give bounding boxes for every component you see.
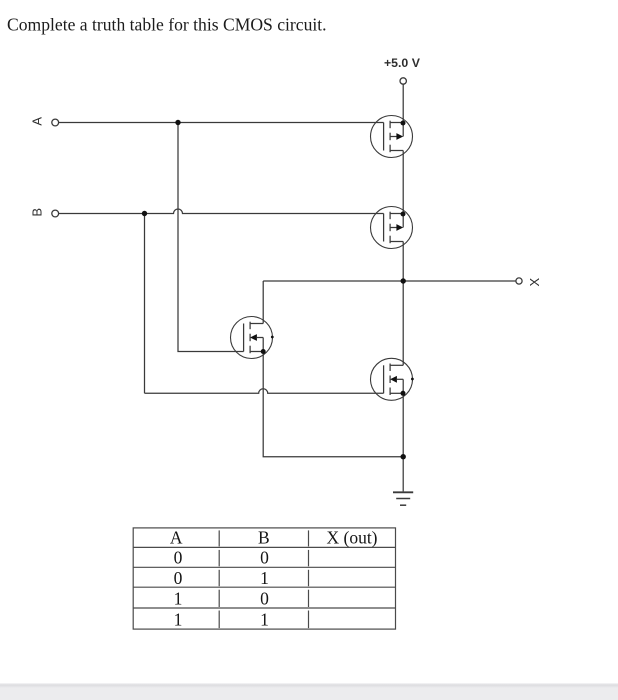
junction output node	[401, 278, 406, 283]
svg-text:1: 1	[174, 610, 183, 630]
svg-text:B: B	[29, 208, 44, 217]
wire M3 drain up to output line	[262, 281, 264, 324]
svg-text:+5.0 V: +5.0 V	[384, 56, 421, 70]
wire M3 source down to ground rail	[263, 352, 403, 457]
junction node B	[142, 211, 147, 216]
node mark M4 circle edge	[411, 378, 414, 381]
+5.0V terminal	[400, 78, 406, 84]
truth table	[133, 528, 395, 629]
junction M4 body-source	[401, 391, 406, 396]
wire VDD to M1 drain rail	[402, 84, 404, 136]
input terminal A	[52, 119, 59, 126]
wire node B vertical	[144, 214, 146, 394]
wire input B to M2 gate (hop over A vertical)	[59, 209, 384, 213]
svg-text:A: A	[170, 528, 183, 548]
wire M2 source to output node and M4 drain	[402, 242, 404, 366]
pmos M2	[371, 207, 413, 249]
svg-text:A: A	[29, 117, 44, 126]
wire M1 source to M2 drain	[402, 151, 404, 228]
svg-text:1: 1	[260, 568, 269, 588]
svg-text:X (out): X (out)	[326, 528, 377, 548]
ground	[393, 492, 413, 505]
svg-text:0: 0	[260, 548, 269, 568]
wire node B to M4 gate (hop over M3 source vertical)	[145, 389, 384, 393]
nmos M4	[371, 358, 413, 400]
junction M3 body-source	[261, 349, 266, 354]
wire M4 source to ground	[402, 393, 404, 491]
wire output node to terminal X	[263, 280, 515, 282]
junction ground rail	[401, 454, 406, 459]
node mark M3 circle edge	[271, 336, 274, 339]
input terminal B	[52, 210, 59, 217]
nmos M3	[231, 317, 273, 359]
junction M1 body-source	[401, 121, 406, 126]
output terminal X	[516, 278, 522, 284]
junction M2 body-source	[401, 212, 406, 217]
svg-text:0: 0	[174, 568, 183, 588]
pmos M1	[371, 116, 413, 158]
svg-text:0: 0	[174, 548, 183, 568]
wire input A to M1 gate	[59, 122, 384, 124]
svg-text:1: 1	[260, 610, 269, 630]
svg-text:0: 0	[260, 589, 269, 609]
bottom scroll strip	[0, 683, 618, 700]
svg-text:1: 1	[174, 589, 183, 609]
svg-text:X: X	[527, 278, 542, 287]
junction node A	[175, 120, 180, 125]
wire node A vertical to M3 gate	[178, 123, 244, 352]
svg-text:Complete a truth table for thi: Complete a truth table for this CMOS cir…	[7, 14, 327, 34]
svg-text:B: B	[258, 528, 270, 548]
